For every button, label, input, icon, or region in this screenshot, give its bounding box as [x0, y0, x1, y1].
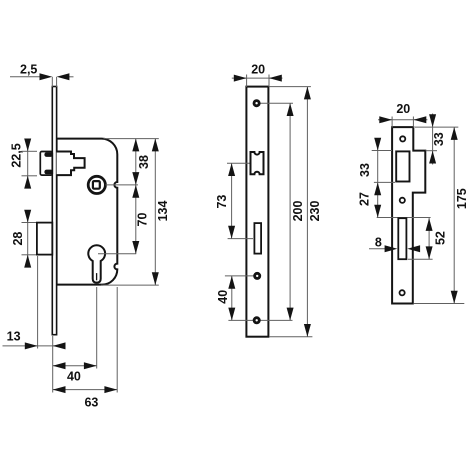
svg-text:40: 40	[216, 290, 230, 304]
svg-text:40: 40	[67, 370, 81, 384]
latch head collar bottom	[44, 170, 52, 175]
dim 27	[374, 205, 381, 218]
svg-text:52: 52	[434, 231, 448, 245]
dim 28	[22, 222, 37, 224]
cylinder centerline	[98, 253, 136, 255]
faceplate front outline	[246, 87, 268, 337]
latch head collar top	[44, 152, 52, 157]
follower square	[93, 181, 100, 189]
svg-text:134: 134	[156, 201, 170, 222]
svg-text:22,5: 22,5	[10, 143, 24, 167]
dim 230	[306, 87, 308, 337]
screw hole top	[253, 99, 261, 107]
dim 73	[231, 163, 233, 238]
screw hole middle	[253, 272, 261, 280]
latch window front	[251, 152, 264, 174]
svg-text:27: 27	[358, 192, 372, 206]
extension slot center (73)	[228, 238, 253, 240]
extension bottom hole (40/200)	[228, 319, 292, 321]
deadbolt side view	[37, 223, 52, 255]
faceplate side view	[52, 87, 56, 335]
dim 63	[53, 389, 118, 391]
strike screw hole top	[400, 136, 405, 141]
svg-text:70: 70	[135, 213, 149, 227]
dim 40 left view	[53, 365, 97, 367]
strike plate outline	[392, 127, 425, 303]
extension cylinder center	[96, 287, 98, 369]
dim 8	[369, 248, 386, 250]
long extension line 27/52	[377, 217, 431, 219]
follower centerline	[106, 184, 139, 186]
svg-text:63: 63	[84, 395, 98, 409]
extension latch center (73)	[227, 162, 250, 164]
extension window bottom (33/27)	[374, 181, 395, 183]
dim 33 right	[426, 150, 438, 152]
extension case right	[116, 287, 118, 393]
dim 13	[37, 256, 39, 349]
extension mid hole (40)	[225, 275, 257, 277]
cylinder keyhole	[88, 245, 105, 282]
extension hole top (200)	[257, 102, 293, 104]
extension plate bottom (230)	[269, 336, 312, 338]
strike screw hole bottom	[400, 290, 405, 295]
dim 38 and 70	[104, 138, 159, 140]
deadbolt slot front	[254, 223, 261, 254]
svg-text:28: 28	[11, 232, 25, 246]
svg-text:73: 73	[215, 195, 229, 209]
lock case outline	[57, 139, 118, 285]
dim 52	[408, 258, 433, 260]
svg-text:200: 200	[291, 201, 305, 222]
svg-text:38: 38	[137, 155, 151, 169]
svg-text:20: 20	[251, 63, 265, 77]
dim 20 middle	[246, 75, 248, 88]
extension window top (33)	[372, 150, 392, 152]
dim 200	[289, 103, 291, 320]
strike deadbolt slot	[398, 218, 406, 259]
svg-text:33: 33	[432, 132, 446, 146]
screw hole bottom	[253, 316, 261, 324]
dim 175	[415, 126, 458, 128]
dim 22,5	[22, 150, 38, 152]
svg-text:20: 20	[396, 102, 410, 116]
latch head side view	[40, 152, 52, 176]
dim 33 left	[377, 139, 379, 218]
strike screw hole middle	[400, 198, 405, 203]
extension faceplate left	[52, 336, 54, 393]
svg-text:33: 33	[358, 163, 372, 177]
svg-text:230: 230	[308, 201, 322, 222]
svg-text:13: 13	[7, 330, 21, 344]
svg-text:2,5: 2,5	[20, 63, 37, 77]
extension plate top right (230)	[270, 86, 311, 88]
latch bolt inner profile	[57, 152, 85, 176]
dim 20 right	[391, 117, 393, 128]
dim 2,5	[51, 77, 53, 87]
strike latch window	[396, 151, 409, 181]
follower ring	[88, 176, 105, 193]
dim 134	[101, 284, 159, 286]
dim 40 middle	[231, 276, 233, 321]
keyway inner line	[96, 273, 98, 280]
svg-text:8: 8	[375, 236, 382, 250]
svg-text:175: 175	[455, 188, 469, 209]
